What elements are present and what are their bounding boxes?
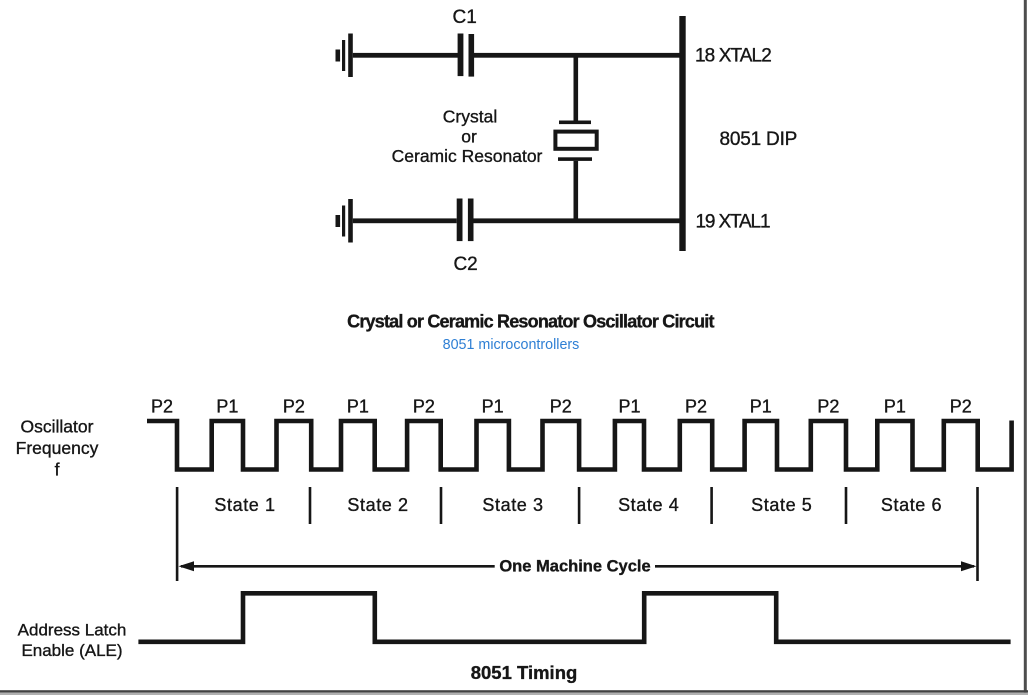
svg-text:P1: P1 (216, 397, 238, 417)
svg-text:C1: C1 (453, 7, 477, 28)
svg-text:State 4: State 4 (618, 495, 679, 515)
svg-text:P1: P1 (750, 397, 772, 417)
state tick 6 (845, 487, 848, 524)
svg-text:State 1: State 1 (214, 495, 275, 515)
state tick 1 (176, 487, 179, 581)
arrowhead right (961, 561, 977, 571)
svg-text:C2: C2 (453, 254, 477, 275)
arrowhead left (179, 561, 195, 571)
state tick 2 (309, 487, 312, 524)
crystal Y1 bottom stem (574, 161, 579, 221)
crystal Y1 body (555, 132, 596, 149)
wire top-left (GND1 to C1) (353, 53, 458, 58)
label Address Latch Enable (ALE) (18, 621, 127, 661)
state tick 4 (578, 487, 581, 524)
svg-text:18 XTAL2: 18 XTAL2 (695, 46, 771, 67)
page bottom border (0, 690, 1028, 692)
phase labels P2/P1 row (151, 397, 972, 417)
state labels (214, 495, 942, 515)
svg-text:Address Latch: Address Latch (18, 621, 127, 640)
page right border (1024, 0, 1027, 695)
svg-text:P1: P1 (347, 397, 369, 417)
svg-text:Enable (ALE): Enable (ALE) (21, 641, 122, 660)
svg-text:Oscillator: Oscillator (21, 417, 94, 437)
svg-text:Crystal: Crystal (443, 107, 497, 127)
svg-text:P2: P2 (151, 397, 173, 417)
svg-text:One Machine Cycle: One Machine Cycle (499, 558, 650, 576)
svg-text:P2: P2 (283, 397, 305, 417)
capacitor C1 (458, 34, 475, 77)
wire top (C1 to XTAL2 pin) (474, 53, 681, 58)
oscillator clock waveform (147, 421, 1012, 470)
svg-text:Crystal or Ceramic Resonator O: Crystal or Ceramic Resonator Oscillator … (347, 312, 714, 332)
one machine cycle arrow left segment (181, 565, 495, 568)
svg-text:f: f (55, 460, 60, 480)
ground GND1 (top-left, bars) (336, 34, 353, 78)
state tick 3 (440, 487, 443, 524)
svg-text:P2: P2 (950, 397, 972, 417)
svg-text:P2: P2 (413, 397, 435, 417)
svg-text:P2: P2 (685, 397, 707, 417)
8051 DIP package edge U1 (679, 16, 685, 251)
svg-text:8051 Timing: 8051 Timing (471, 662, 578, 683)
svg-text:P2: P2 (817, 397, 839, 417)
capacitor C2 (457, 199, 474, 242)
wire bottom-left (GND2 to C2) (353, 218, 457, 223)
label Oscillator Frequency f (16, 417, 99, 480)
label Crystal or Ceramic Resonator (392, 107, 543, 167)
crystal Y1 top stem (574, 55, 579, 121)
one machine cycle arrow right segment (655, 565, 974, 568)
svg-text:P1: P1 (618, 397, 640, 417)
svg-text:State 5: State 5 (751, 495, 812, 515)
crystal Y1 bottom plate (558, 157, 592, 161)
svg-text:19 XTAL1: 19 XTAL1 (696, 212, 770, 233)
svg-text:State 3: State 3 (482, 495, 543, 515)
svg-text:State 2: State 2 (347, 495, 408, 515)
svg-text:P1: P1 (482, 397, 504, 417)
ALE waveform (138, 593, 1010, 642)
svg-text:Frequency: Frequency (16, 438, 99, 458)
wire bottom (C2 to XTAL1 pin) (474, 218, 682, 223)
svg-text:8051 DIP: 8051 DIP (720, 129, 798, 150)
ground GND2 (bottom-left, bars) (336, 199, 353, 243)
crystal Y1 top plate (559, 121, 591, 125)
page bottom shadow (0, 693, 1028, 695)
svg-text:P1: P1 (884, 397, 906, 417)
svg-text:Ceramic Resonator: Ceramic Resonator (392, 146, 543, 166)
svg-text:or: or (461, 127, 477, 147)
svg-text:State 6: State 6 (881, 495, 942, 515)
state tick 7 (976, 487, 979, 581)
state tick 5 (710, 487, 713, 524)
svg-text:8051 microcontrollers: 8051 microcontrollers (443, 337, 580, 353)
svg-text:P2: P2 (550, 397, 572, 417)
